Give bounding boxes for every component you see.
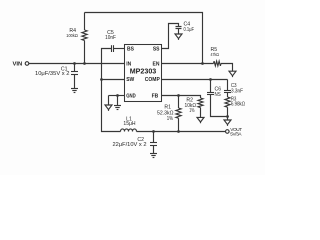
svg-text:EN: EN: [153, 61, 160, 67]
svg-text:NS: NS: [215, 92, 222, 98]
svg-text:FB: FB: [152, 93, 159, 99]
svg-text:IN: IN: [126, 61, 131, 67]
svg-text:1%: 1%: [189, 108, 194, 114]
svg-text:15μH: 15μH: [123, 121, 135, 127]
svg-text:MP2303: MP2303: [130, 69, 157, 76]
svg-text:1%: 1%: [167, 116, 174, 122]
svg-text:GND: GND: [126, 93, 136, 99]
svg-text:22μF/10V x 2: 22μF/10V x 2: [113, 142, 147, 148]
svg-text:VIN: VIN: [13, 62, 23, 68]
svg-text:10μF/35V x 2: 10μF/35V x 2: [35, 71, 70, 77]
svg-text:BS: BS: [127, 46, 135, 52]
svg-text:47kΩ: 47kΩ: [211, 52, 220, 58]
svg-text:SS: SS: [153, 46, 160, 52]
svg-text:0.1μF: 0.1μF: [184, 27, 195, 33]
svg-text:COMP: COMP: [145, 77, 161, 83]
svg-text:3.3nF: 3.3nF: [231, 88, 243, 94]
svg-text:100kΩ: 100kΩ: [66, 33, 78, 39]
svg-text:5V/3A: 5V/3A: [230, 132, 242, 137]
svg-text:10nF: 10nF: [105, 35, 116, 41]
svg-text:6.98kΩ: 6.98kΩ: [231, 102, 245, 108]
svg-text:R1: R1: [164, 104, 171, 110]
svg-text:SW: SW: [126, 77, 134, 83]
